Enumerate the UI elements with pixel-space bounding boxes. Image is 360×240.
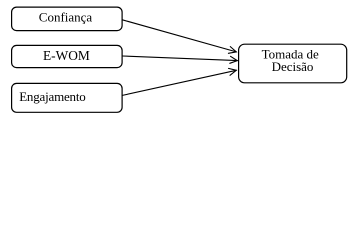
svg-text:Engajamento: Engajamento <box>19 89 85 104</box>
svg-text:E-WOM: E-WOM <box>43 48 90 63</box>
svg-text:Confiança: Confiança <box>39 9 93 24</box>
svg-text:Decisão: Decisão <box>272 59 314 74</box>
